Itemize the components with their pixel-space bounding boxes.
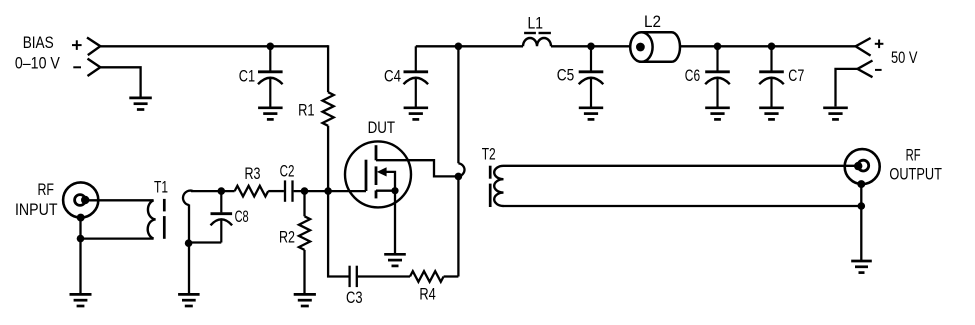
svg-text:DUT: DUT bbox=[368, 119, 396, 137]
svg-text:C3: C3 bbox=[346, 289, 363, 307]
capacitor C5 bbox=[590, 46, 592, 70]
BIAS - terminal chevron bbox=[88, 59, 101, 76]
ground BIAS- bbox=[129, 97, 152, 100]
svg-text:R4: R4 bbox=[419, 286, 435, 304]
wire drain node down to feedback bbox=[457, 176, 459, 276]
50V - terminal chevron bbox=[858, 61, 873, 78]
wire R2 top bbox=[303, 191, 305, 216]
svg-text:C6: C6 bbox=[685, 67, 700, 85]
inductor L1 bbox=[523, 38, 551, 46]
node C8 bottom junction bbox=[185, 239, 193, 247]
ground 50V- bbox=[823, 106, 848, 109]
svg-text:T1: T1 bbox=[154, 179, 168, 197]
minus sign BIAS bbox=[73, 66, 81, 68]
ground RF OUT bbox=[851, 260, 872, 263]
wire T2 bottom to output ground bbox=[504, 205, 862, 207]
ground C6 bbox=[705, 106, 730, 109]
wire R1 top bbox=[327, 45, 329, 92]
capacitor C2 bbox=[284, 180, 286, 201]
DUT gate bar bbox=[365, 160, 368, 191]
svg-text:RF: RF bbox=[38, 181, 55, 199]
svg-text:RF: RF bbox=[906, 147, 921, 165]
ground C7 bbox=[759, 106, 784, 109]
svg-text:BIAS: BIAS bbox=[23, 34, 54, 52]
node T1 primary bottom bbox=[77, 235, 85, 243]
wire T1 sec to R3 bbox=[191, 190, 235, 192]
plus sign 50V bbox=[875, 43, 884, 45]
svg-text:R1: R1 bbox=[298, 102, 315, 120]
DUT circle bbox=[345, 141, 411, 207]
ground DUT source bbox=[384, 253, 406, 256]
svg-text:R2: R2 bbox=[279, 229, 295, 247]
T1 core dashes bbox=[163, 199, 166, 212]
svg-text:L1: L1 bbox=[528, 15, 544, 33]
capacitor C8 bbox=[220, 191, 222, 212]
wire RF OUT shell down bbox=[860, 184, 862, 261]
wire supply rail bbox=[416, 45, 523, 47]
svg-text:OUTPUT: OUTPUT bbox=[889, 165, 942, 183]
node C8 tap bbox=[218, 187, 226, 195]
wire R4 to drain node bbox=[444, 275, 459, 277]
ground R2 bbox=[294, 293, 316, 296]
T2 core dashes bbox=[489, 166, 492, 179]
transformer T1 primary winding bbox=[148, 200, 156, 238]
node R1 / gate tap bbox=[324, 187, 332, 195]
wire R2 bottom bbox=[303, 250, 305, 294]
wire R1 bottom to gate node bbox=[327, 126, 329, 191]
svg-text:L2: L2 bbox=[644, 13, 661, 31]
wire C8 bottom to T1 sec bbox=[189, 241, 222, 243]
svg-text:C4: C4 bbox=[384, 68, 401, 86]
wire BIAS+ rail bbox=[100, 45, 328, 47]
svg-text:INPUT: INPUT bbox=[15, 201, 58, 219]
svg-text:C5: C5 bbox=[557, 67, 575, 85]
wire R3 to C2 bbox=[268, 190, 284, 192]
BIAS + terminal chevron bbox=[87, 38, 100, 56]
ground RF IN bbox=[70, 293, 92, 296]
plus sign BIAS bbox=[72, 44, 82, 46]
capacitor C3 bbox=[348, 266, 350, 287]
wire C2 to gate bbox=[294, 190, 366, 192]
svg-text:C7: C7 bbox=[788, 67, 804, 85]
wire BIAS- to ground bbox=[100, 67, 140, 96]
resistor R1 bbox=[323, 92, 334, 126]
svg-text:T2: T2 bbox=[482, 146, 496, 164]
RF INPUT connector bbox=[63, 182, 98, 217]
wire RF IN shell down bbox=[79, 218, 81, 295]
capacitor C7 bbox=[770, 46, 772, 70]
svg-text:C2: C2 bbox=[280, 162, 295, 180]
wire C3 to R4 bbox=[358, 275, 410, 277]
L1 core dashes bbox=[524, 32, 536, 34]
capacitor C6 bbox=[716, 46, 718, 70]
node drain junction bbox=[455, 173, 463, 181]
wire T1 secondary down bbox=[188, 205, 190, 295]
L2 bead face bbox=[630, 32, 652, 62]
node RF OUT shell bbox=[857, 180, 865, 188]
wire supply drop bbox=[457, 46, 459, 163]
ground C4 bbox=[404, 106, 429, 109]
wire drain bbox=[376, 160, 458, 176]
DUT body arrow bbox=[377, 167, 387, 176]
wire 50V- to ground bbox=[836, 69, 858, 107]
node output ground tap bbox=[858, 202, 866, 210]
wire source down bbox=[394, 191, 396, 255]
node C1 tap bbox=[267, 43, 275, 51]
capacitor C1 bbox=[269, 46, 271, 70]
node source junction bbox=[391, 187, 398, 194]
resistor R4 bbox=[410, 271, 444, 282]
wire gate node down bbox=[328, 191, 348, 276]
minus sign 50V bbox=[875, 69, 882, 71]
node RF IN shell bbox=[77, 214, 85, 222]
capacitor C4 bbox=[415, 46, 417, 70]
node R2 tap bbox=[301, 187, 309, 195]
transformer T2 primary single-turn loop bbox=[458, 163, 464, 176]
ground C1 bbox=[258, 106, 283, 109]
svg-text:C1: C1 bbox=[239, 67, 255, 85]
svg-text:50 V: 50 V bbox=[891, 49, 918, 67]
wire T1 primary bottom bbox=[81, 237, 154, 239]
wire T2 top to output bbox=[504, 165, 859, 167]
inductor L2 ferrite bead body bbox=[641, 32, 680, 62]
svg-text:C8: C8 bbox=[235, 208, 249, 226]
resistor R2 bbox=[299, 216, 310, 250]
resistor R3 bbox=[235, 186, 269, 197]
transformer T1 secondary single-turn loop bbox=[183, 191, 193, 206]
ground C5 bbox=[579, 106, 603, 109]
node rail tap bbox=[455, 43, 463, 51]
node C6 tap bbox=[714, 43, 722, 51]
svg-text:R3: R3 bbox=[245, 165, 261, 183]
wire source bbox=[376, 190, 395, 192]
svg-text:0–10 V: 0–10 V bbox=[15, 55, 60, 73]
RF OUTPUT connector bbox=[845, 149, 880, 184]
transformer T2 secondary winding bbox=[494, 166, 503, 206]
50V + terminal chevron bbox=[856, 38, 871, 56]
L2 wire end dot bbox=[636, 43, 645, 52]
ground T1 secondary bbox=[178, 293, 200, 296]
wire RF IN pin to T1 bbox=[85, 199, 153, 201]
DUT channel segments bbox=[375, 145, 378, 160]
node C5 tap bbox=[587, 43, 595, 51]
node C7 tap bbox=[768, 43, 776, 51]
